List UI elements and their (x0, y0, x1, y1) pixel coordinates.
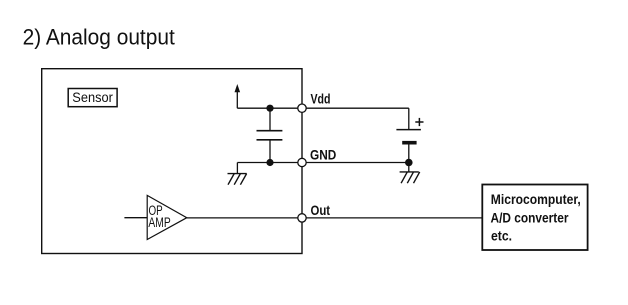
battery BT1 plus sign (415, 118, 423, 126)
ground (right) (400, 172, 420, 183)
svg-text:GND: GND (310, 147, 336, 163)
node Vdd terminal (298, 104, 306, 112)
sensor block outline (42, 69, 302, 254)
svg-text:Microcomputer,: Microcomputer, (491, 191, 581, 207)
svg-text:2) Analog output: 2) Analog output (23, 25, 175, 50)
junction dot GND/C1 (266, 159, 273, 166)
capacitor C1 top lead (269, 108, 271, 131)
ground (left) (228, 174, 247, 185)
node Out terminal (298, 214, 306, 222)
wire: op-amp output to Out terminal and on to microcomputer (187, 217, 483, 219)
svg-text:Vdd: Vdd (311, 90, 331, 106)
capacitor C1 plates (257, 130, 283, 132)
battery BT1 negative lead (408, 145, 410, 163)
junction dot GND/battery (405, 159, 413, 167)
svg-text:etc.: etc. (491, 228, 512, 244)
svg-text:Sensor: Sensor (72, 89, 113, 105)
Vdd supply arrow (235, 84, 241, 108)
op-amp U1 (147, 195, 187, 239)
battery BT1 positive plate (396, 129, 421, 131)
node GND terminal (298, 158, 306, 166)
right ground stem (408, 163, 410, 172)
junction dot Vdd/C1 (266, 105, 273, 112)
capacitor C1 bottom lead (269, 140, 271, 163)
svg-text:A/D converter: A/D converter (491, 210, 569, 226)
svg-text:AMP: AMP (148, 215, 170, 230)
battery BT1 positive lead (408, 108, 410, 129)
microcomputer box (482, 185, 587, 251)
wire: op-amp input stub (124, 217, 147, 219)
wire: Vdd rail (237, 107, 408, 109)
battery BT1 negative plate (402, 141, 416, 145)
left ground stem (236, 163, 238, 174)
sensor label box (68, 89, 117, 107)
microcomputer text (491, 191, 581, 244)
wire: GND rail (237, 162, 408, 164)
svg-text:Out: Out (311, 202, 331, 218)
